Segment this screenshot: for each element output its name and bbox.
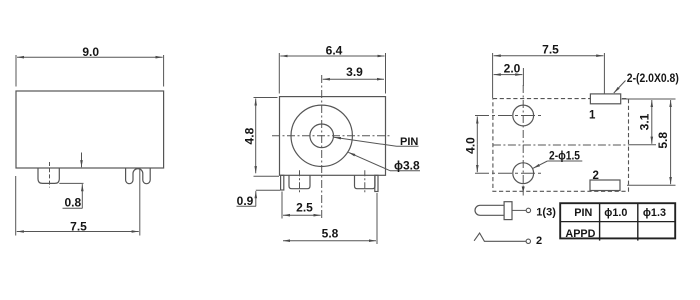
svg-text:3.1: 3.1 [638,113,652,130]
svg-text:7.5: 7.5 [70,219,87,233]
svg-text:1: 1 [589,109,596,121]
svg-text:5.8: 5.8 [656,132,670,149]
svg-text:ϕ3.8: ϕ3.8 [394,158,420,172]
svg-text:PIN: PIN [400,136,418,148]
svg-text:2: 2 [593,170,599,182]
svg-text:2.5: 2.5 [296,201,313,215]
svg-text:PIN: PIN [574,207,592,219]
svg-text:3.9: 3.9 [346,65,363,79]
svg-text:2.0: 2.0 [504,62,521,76]
svg-text:2-(2.0X0.8): 2-(2.0X0.8) [627,71,679,85]
svg-text:1(3): 1(3) [536,207,556,219]
svg-text:4.0: 4.0 [464,137,478,154]
svg-text:2-ϕ1.5: 2-ϕ1.5 [549,148,580,162]
svg-text:ϕ1.3: ϕ1.3 [643,207,666,219]
svg-text:ϕ1.0: ϕ1.0 [604,207,627,219]
svg-text:9.0: 9.0 [82,45,99,59]
svg-text:0.8: 0.8 [64,196,81,210]
svg-text:0.9: 0.9 [237,194,254,208]
svg-text:APPD: APPD [565,228,595,240]
svg-text:7.5: 7.5 [542,43,559,57]
svg-text:2: 2 [536,235,542,247]
svg-text:6.4: 6.4 [326,44,343,58]
svg-text:5.8: 5.8 [322,227,339,241]
svg-text:4.8: 4.8 [243,127,257,144]
